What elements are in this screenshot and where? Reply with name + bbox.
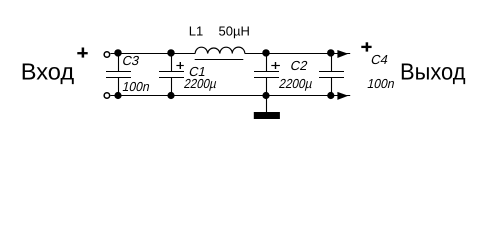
svg-text:L1: L1 xyxy=(189,23,203,38)
svg-text:C2: C2 xyxy=(289,58,309,73)
svg-text:100n: 100n xyxy=(366,76,396,91)
svg-text:2200µ: 2200µ xyxy=(278,76,315,91)
svg-text:C3: C3 xyxy=(121,53,141,68)
svg-text:Вход: Вход xyxy=(21,59,75,85)
svg-text:Выход: Выход xyxy=(400,59,466,85)
svg-text:100n: 100n xyxy=(121,79,151,94)
svg-text:C4: C4 xyxy=(370,52,390,67)
svg-text:50µH: 50µH xyxy=(219,23,250,38)
svg-text:2200µ: 2200µ xyxy=(183,76,219,91)
